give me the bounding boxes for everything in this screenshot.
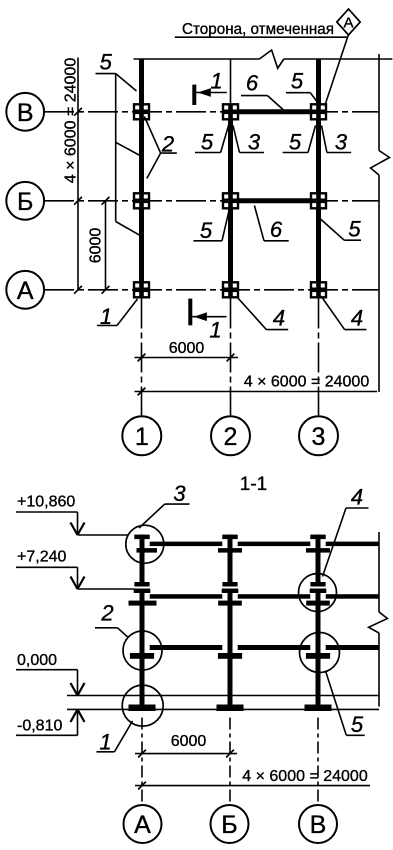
- svg-text:2: 2: [100, 601, 113, 626]
- svg-text:+7,240: +7,240: [17, 549, 66, 566]
- svg-text:4: 4: [351, 485, 363, 510]
- svg-text:3: 3: [173, 481, 186, 506]
- svg-text:4 × 6000 = 24000: 4 × 6000 = 24000: [63, 58, 80, 184]
- svg-text:Сторона, отмеченная: Сторона, отмеченная: [182, 21, 334, 38]
- svg-text:5: 5: [348, 217, 361, 242]
- svg-text:3: 3: [312, 423, 326, 451]
- svg-text:1: 1: [99, 730, 111, 755]
- svg-text:1: 1: [209, 318, 221, 343]
- svg-text:6: 6: [246, 71, 259, 96]
- svg-text:В: В: [310, 811, 327, 839]
- svg-text:3: 3: [248, 130, 261, 155]
- svg-text:6000: 6000: [88, 228, 105, 264]
- svg-text:0,000: 0,000: [17, 652, 57, 669]
- svg-text:5: 5: [200, 218, 213, 243]
- svg-text:6000: 6000: [169, 340, 205, 357]
- svg-text:2: 2: [224, 423, 238, 451]
- svg-text:А: А: [17, 277, 34, 305]
- svg-text:-0,810: -0,810: [17, 718, 62, 735]
- svg-text:5: 5: [289, 130, 302, 155]
- svg-text:А: А: [134, 811, 151, 839]
- svg-text:В: В: [17, 99, 34, 127]
- svg-text:1: 1: [135, 423, 149, 451]
- svg-text:5: 5: [100, 50, 113, 75]
- svg-text:4 × 6000 = 24000: 4 × 6000 = 24000: [244, 374, 370, 391]
- svg-text:1: 1: [210, 69, 222, 94]
- svg-text:5: 5: [201, 130, 214, 155]
- svg-text:6000: 6000: [171, 733, 207, 750]
- svg-text:Б: Б: [221, 811, 237, 839]
- svg-text:А: А: [343, 15, 353, 32]
- svg-text:4: 4: [351, 306, 363, 331]
- svg-text:4 × 6000 = 24000: 4 × 6000 = 24000: [242, 768, 368, 785]
- svg-text:4: 4: [273, 306, 285, 331]
- svg-text:6: 6: [270, 217, 283, 242]
- svg-text:3: 3: [335, 130, 348, 155]
- svg-text:+10,860: +10,860: [17, 494, 75, 511]
- svg-text:5: 5: [351, 712, 364, 737]
- svg-text:1-1: 1-1: [240, 474, 267, 495]
- svg-text:Б: Б: [17, 188, 33, 216]
- svg-text:5: 5: [291, 69, 304, 94]
